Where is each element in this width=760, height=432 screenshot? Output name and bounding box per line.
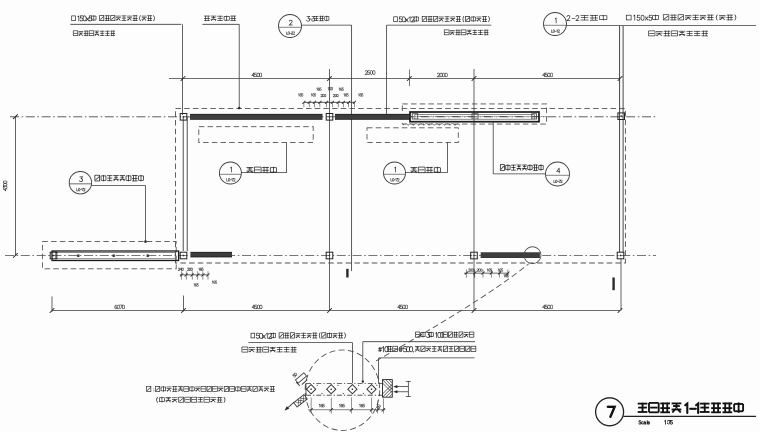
top dimension line xyxy=(169,78,620,80)
bolt plate right xyxy=(532,114,537,119)
seat dashed box right xyxy=(367,128,458,143)
underline top-left note xyxy=(70,23,181,25)
dim label 2500 xyxy=(365,71,367,75)
bench outer rect xyxy=(52,251,179,261)
callout circle 1 (2-2 section) xyxy=(544,13,567,36)
title underline xyxy=(624,415,756,417)
dim label 4500 xyxy=(252,73,254,75)
arrow tail bar xyxy=(407,381,409,396)
boxed wall beam (装饰墙二) xyxy=(410,112,539,122)
section 2-2 bold bar xyxy=(612,278,614,291)
callout circle 3 (wall detail one) xyxy=(69,172,91,194)
dim tick xyxy=(327,76,332,81)
leader callout 1 / underline top-right note xyxy=(567,25,756,27)
dim label 2000 xyxy=(437,73,439,77)
pavilion dashed outline xyxy=(176,108,626,263)
leader bottom plate note xyxy=(362,342,364,382)
callout circle 4 (wall detail two) xyxy=(546,162,570,186)
title circle 7 xyxy=(596,398,624,426)
callout circle seat detail left xyxy=(219,162,241,184)
node square lower L0 xyxy=(50,252,57,259)
column right (double line) xyxy=(619,26,621,253)
beam detail dashed box xyxy=(402,104,546,124)
leader callout 4 xyxy=(492,122,494,174)
dim tick xyxy=(50,308,55,313)
section line 3-3 xyxy=(351,25,353,271)
leader pavilion edge xyxy=(238,24,240,108)
detail plate bottom edge xyxy=(306,394,383,396)
detail plate left end xyxy=(305,383,307,395)
dim label 6070 xyxy=(115,305,117,309)
dim tick xyxy=(407,76,412,81)
leader deco column to diamond xyxy=(351,343,353,384)
leader arrow bottom-left xyxy=(286,402,295,410)
bolt diamond 2 xyxy=(327,385,336,394)
detail origin circle on lower beam xyxy=(524,247,541,264)
grid extension right column bottom xyxy=(620,259,622,311)
bolt plate left xyxy=(412,114,418,119)
title text xyxy=(638,403,648,405)
bolt diamond 4 xyxy=(367,385,376,394)
grid line x=474 xyxy=(473,69,475,311)
underline deco column detail note xyxy=(248,342,352,344)
dim label 4500 xyxy=(543,305,545,307)
node square lower L4 xyxy=(617,252,624,259)
label 2-2 section xyxy=(567,16,570,21)
underline deco column note xyxy=(387,24,492,26)
lower beam segment A (dark) xyxy=(190,252,232,257)
leader seat detail right xyxy=(406,172,448,174)
small dim cluster above beam xyxy=(304,101,355,103)
general note text xyxy=(146,386,148,392)
left vertical dimension 4300 xyxy=(14,117,16,256)
dim label 4500 xyxy=(543,73,545,75)
note: deco column spec at detail xyxy=(251,333,255,338)
label seat detail right xyxy=(410,166,417,168)
underline bottom plate note xyxy=(363,341,475,343)
slanted tube top-left with 50 label xyxy=(295,373,306,383)
bench small marks xyxy=(77,254,79,257)
upper beam segment A (dark) xyxy=(190,114,323,119)
upper centerline (dash-dot) xyxy=(10,116,656,118)
bolt diamond 1 xyxy=(307,385,316,394)
dim tick xyxy=(327,308,332,313)
leader seat detail left xyxy=(241,172,286,174)
leader callout 2 to section line xyxy=(302,24,352,26)
node square lower L2 xyxy=(326,252,333,259)
section 3-3 bold bar xyxy=(346,269,348,278)
dim tick xyxy=(618,76,623,81)
leader deco column note xyxy=(386,25,388,114)
bolt diamond 3 xyxy=(348,385,357,394)
dashed leader curve to lower beam circle xyxy=(376,264,529,361)
bottom dim extension left xyxy=(51,297,53,312)
column left (double line) xyxy=(182,117,184,251)
bolt plate middle xyxy=(472,114,478,119)
detail dimension line xyxy=(308,409,386,411)
label 3-3 section xyxy=(307,16,310,21)
scallop path xyxy=(403,124,460,126)
grid extension left column bottom xyxy=(183,296,185,312)
note: bolt holes spec xyxy=(378,347,381,351)
boxed beam centerline xyxy=(403,115,546,117)
scale label xyxy=(639,421,641,424)
bench dashed box lower-left xyxy=(42,242,176,269)
slanted tube bottom-left hatched xyxy=(294,395,308,407)
callout circle seat detail right xyxy=(384,162,406,184)
dim label 4500 xyxy=(398,305,400,307)
note: column spec top-right xyxy=(626,15,631,20)
note: deco column spec top-middle xyxy=(394,17,398,22)
underline pavilion edge label xyxy=(202,23,239,25)
seat dashed box left xyxy=(199,127,313,143)
bottom dimension line xyxy=(52,310,620,312)
callout circle 2 (3-3 section) xyxy=(279,15,302,38)
node square upper C xyxy=(618,113,625,120)
slanted tick top-left xyxy=(302,380,307,385)
label seat detail left xyxy=(246,166,253,168)
detail plate top edge xyxy=(306,382,383,384)
small dim cluster lower-right xyxy=(464,272,509,274)
node square lower L1 xyxy=(180,252,187,259)
dim tick xyxy=(472,76,477,81)
lower beam segment B (dark) xyxy=(481,253,540,258)
small dim cluster lower-left xyxy=(180,274,209,276)
bench inner rect xyxy=(55,253,175,259)
tiny dots between diamonds xyxy=(317,385,318,386)
lower centerline (dash-dot) xyxy=(5,255,656,257)
dim tick xyxy=(181,76,186,81)
leader callout 3 xyxy=(92,185,146,187)
dim label 4500 xyxy=(252,305,254,307)
node square lower L3 xyxy=(471,252,478,259)
label wall detail one xyxy=(94,175,96,181)
dim extension x=409 xyxy=(408,70,410,87)
label wall detail two xyxy=(499,164,501,170)
boxed beam inner rect xyxy=(415,115,534,120)
detail dashed ellipse xyxy=(305,350,380,430)
grid line middle x=329.5 xyxy=(329,69,331,311)
note: column spec top-left xyxy=(72,16,76,21)
anchor block hatched xyxy=(378,379,420,399)
note: bottom plate spec xyxy=(415,331,420,333)
leader bolt holes note xyxy=(378,358,380,383)
upper beam segment B (dark) xyxy=(335,114,410,119)
underline bolt holes note xyxy=(379,357,475,359)
leader column left text xyxy=(182,24,184,115)
node square upper B xyxy=(326,114,333,121)
dim tick xyxy=(618,308,623,313)
dim tick xyxy=(472,308,477,313)
bolt arrows xyxy=(395,386,409,388)
note: pavilion edge line label xyxy=(204,15,210,17)
node square upper A xyxy=(180,114,187,121)
dim tick xyxy=(181,308,186,313)
